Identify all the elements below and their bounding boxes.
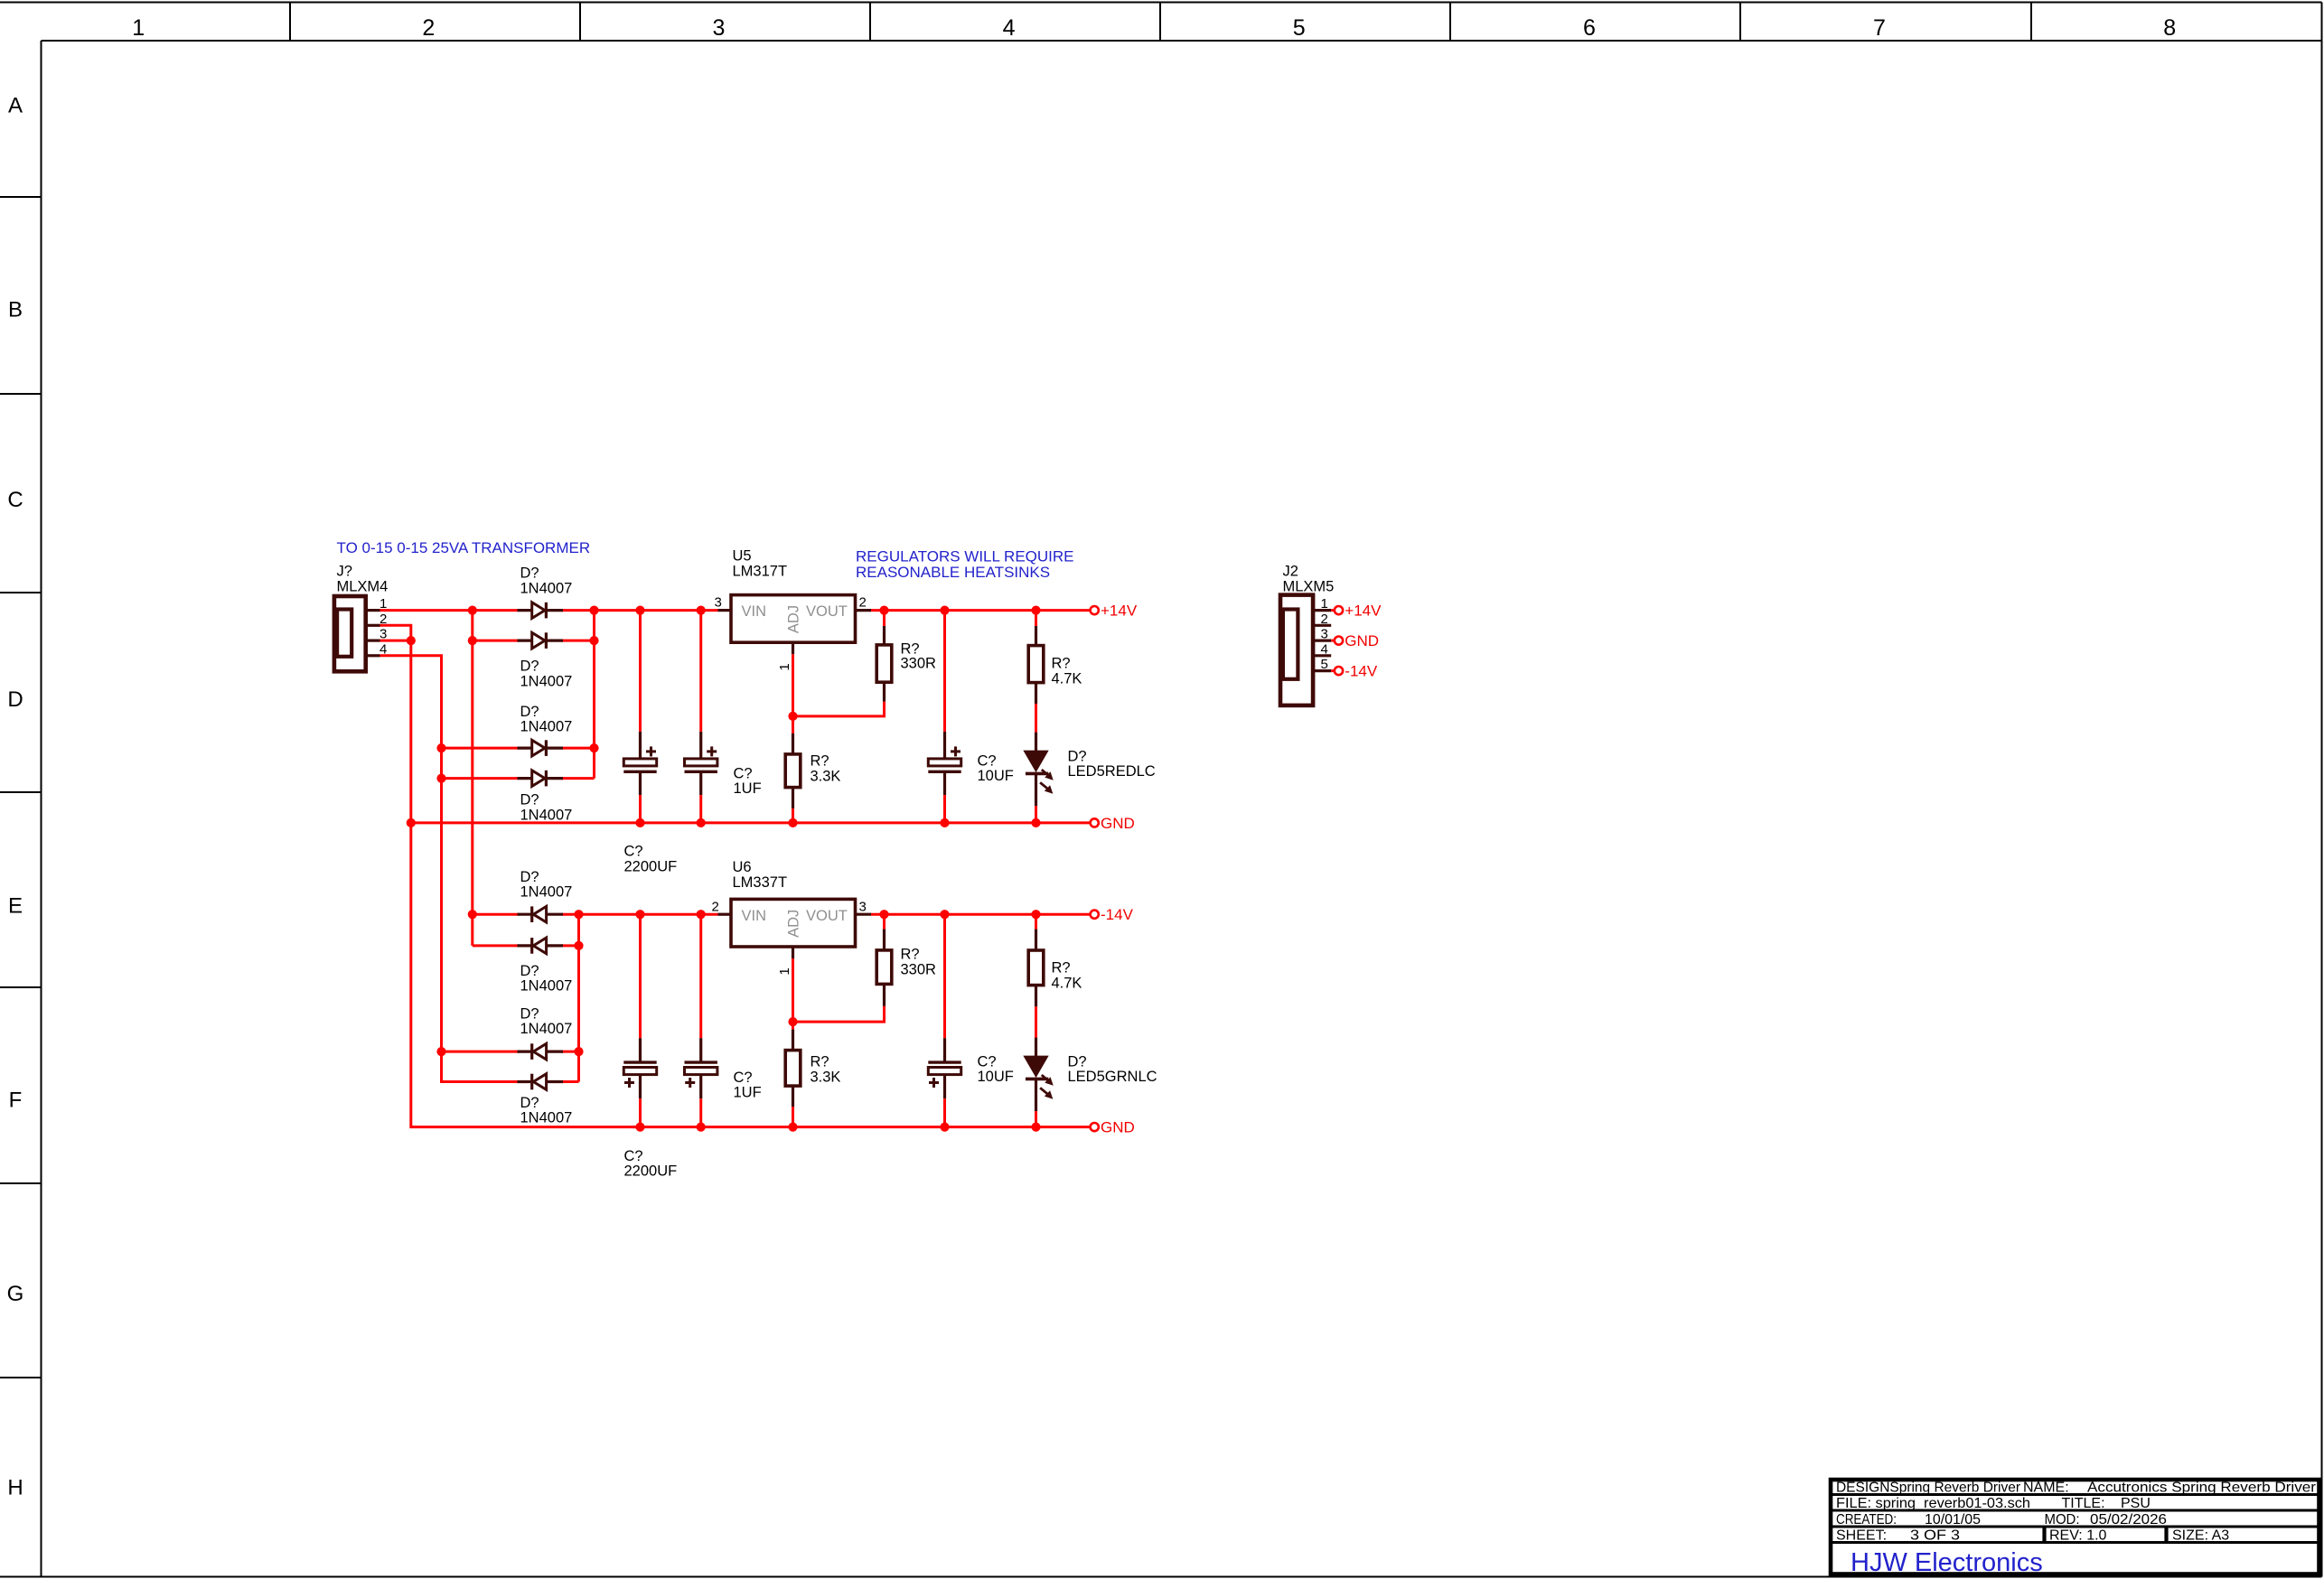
svg-text:FILE: spring_reverb01-03.sch: FILE: spring_reverb01-03.sch xyxy=(1836,1496,2030,1511)
resistor R6 4.7K (bottom) xyxy=(1035,930,1037,950)
svg-text:1N4007: 1N4007 xyxy=(520,1110,573,1126)
column divider 3/4 xyxy=(869,3,871,42)
diode D1 1N4007 (row 1) xyxy=(518,609,532,612)
svg-text:1: 1 xyxy=(132,15,145,41)
svg-text:MOD:: MOD: xyxy=(2045,1512,2080,1528)
terminal: bottom GND circle xyxy=(1091,1123,1099,1131)
svg-text:TITLE:: TITLE: xyxy=(2062,1496,2105,1511)
svg-text:3: 3 xyxy=(859,900,867,915)
wire: adj node across to R1 330R bottom xyxy=(793,702,885,716)
wire: pin1 vertical feed xyxy=(471,611,473,946)
svg-text:D?: D? xyxy=(520,1095,539,1111)
svg-text:1N4007: 1N4007 xyxy=(520,1021,573,1037)
wire: adj node down to R5 3.3K xyxy=(792,1022,794,1030)
connector J1 pin 3 stub xyxy=(366,639,380,641)
svg-text:10UF: 10UF xyxy=(978,768,1014,784)
junction: bottom GND rail at C5 xyxy=(697,1123,706,1132)
svg-text:HJW Electronics: HJW Electronics xyxy=(1851,1548,2043,1577)
wire: U5 ADJ pin down to adj node xyxy=(792,654,794,716)
U5 pin 3 stub (VIN) xyxy=(718,609,732,612)
U6 pin 2 stub (VIN) xyxy=(718,913,732,916)
sheet border: right outer line xyxy=(2321,3,2323,1577)
diode D3 1N4007 (row 3) xyxy=(518,746,532,749)
connector J2 MLXM5 body xyxy=(1280,595,1313,705)
U5 pin 1 stub (ADJ) xyxy=(792,642,794,654)
junction: top rail at C2 1UF xyxy=(697,606,706,615)
svg-text:D?: D? xyxy=(1068,749,1087,765)
diode D4 1N4007 (row 4) xyxy=(518,777,532,780)
svg-text:J2: J2 xyxy=(1283,564,1298,580)
resistor R3 4.7K (top) xyxy=(1035,626,1037,646)
svg-text:D?: D? xyxy=(520,704,539,720)
svg-text:1: 1 xyxy=(1321,596,1328,612)
svg-text:1: 1 xyxy=(777,663,792,670)
junction: plus node at D3 row xyxy=(589,743,598,752)
junction: centre tap at pins 2/3 xyxy=(407,636,416,645)
svg-text:330R: 330R xyxy=(901,656,937,672)
svg-text:3 OF 3: 3 OF 3 xyxy=(1910,1528,1960,1544)
svg-text:05/02/2026: 05/02/2026 xyxy=(2090,1512,2167,1528)
connector J1 pin 1 stub xyxy=(366,609,380,612)
svg-text:LM337T: LM337T xyxy=(733,874,788,891)
terminal: top GND circle xyxy=(1091,818,1099,827)
svg-text:REV: 1.0: REV: 1.0 xyxy=(2049,1528,2107,1544)
svg-text:TO 0-15 0-15 25VA TRANSFORMER: TO 0-15 0-15 25VA TRANSFORMER xyxy=(337,539,591,556)
junction: bottom GND rail at R5 xyxy=(788,1123,797,1132)
junction: minus rail at R6 4.7K xyxy=(1031,910,1040,919)
svg-text:-14V: -14V xyxy=(1345,663,1378,680)
svg-text:C?: C? xyxy=(624,844,643,860)
wire: minus rail down to R6 xyxy=(1035,914,1037,929)
wire: D2 row left segment xyxy=(473,640,520,642)
svg-text:C: C xyxy=(7,488,23,512)
junction: top rail at R1 330R xyxy=(879,606,888,615)
connector J2 pin 5 stub xyxy=(1313,669,1331,672)
svg-text:GND: GND xyxy=(1345,632,1379,649)
svg-text:A: A xyxy=(8,93,23,117)
resistor R1 330R (top) xyxy=(883,626,886,645)
svg-text:2200UF: 2200UF xyxy=(624,859,678,875)
svg-text:GND: GND xyxy=(1101,1119,1135,1136)
junction: minus node at D6 row xyxy=(574,941,583,950)
connector J2 pin 2 stub xyxy=(1313,624,1331,627)
wire: top rail down to R1 xyxy=(883,611,886,626)
svg-text:F: F xyxy=(9,1088,23,1112)
svg-text:H: H xyxy=(7,1476,23,1500)
connector J2 pin 3 stub xyxy=(1313,639,1331,641)
column divider 5/6 xyxy=(1449,3,1451,42)
wire: top GND rail xyxy=(411,821,1091,824)
svg-text:SIZE: A3: SIZE: A3 xyxy=(2172,1528,2229,1544)
wire: U6 ADJ pin down to adj node xyxy=(792,958,794,1022)
svg-text:10UF: 10UF xyxy=(978,1069,1014,1085)
svg-text:D?: D? xyxy=(1068,1054,1087,1070)
junction: centre tap meets top GND rail xyxy=(407,818,416,827)
junction: top GND rail at C1 xyxy=(635,818,644,827)
row divider D/E xyxy=(0,791,42,793)
junction: U5 adj node xyxy=(788,712,797,721)
wire: top rail down to R3 xyxy=(1035,611,1037,626)
svg-text:D?: D? xyxy=(520,659,539,675)
row divider F/G xyxy=(0,1182,42,1184)
title block row4 divider (SIZE) xyxy=(2164,1527,2168,1543)
wire: adj node across to R4 330R bottom xyxy=(793,1006,885,1022)
svg-text:330R: 330R xyxy=(901,962,937,978)
junction: plus node at D2 row xyxy=(589,636,598,645)
wire: J2 stub to GND terminal xyxy=(1331,640,1335,642)
resistor R2 3.3K (top) xyxy=(792,733,794,754)
wire: adj node down to R2 3.3K xyxy=(792,716,794,733)
wire: D4 row right segment xyxy=(561,777,595,780)
svg-text:3: 3 xyxy=(1321,627,1328,642)
svg-text:1N4007: 1N4007 xyxy=(520,978,573,995)
capacitor C4 2200UF (bottom) xyxy=(639,914,642,1038)
capacitor C6 10UF (bottom) xyxy=(943,914,946,1038)
wire: U6 VOUT to -14V terminal xyxy=(871,913,1091,916)
wire: R5 bottom to bottom GND rail xyxy=(792,1107,794,1127)
wire: D5 row left segment xyxy=(473,913,520,916)
terminal: J2 GND circle xyxy=(1335,637,1343,645)
wire: plus-node vertical xyxy=(593,611,595,779)
svg-text:2: 2 xyxy=(859,595,867,611)
diode D6 1N4007 (row 6) xyxy=(518,944,532,947)
svg-text:R?: R? xyxy=(811,1054,829,1070)
svg-text:B: B xyxy=(8,298,23,322)
diode D8 1N4007 (row 8) xyxy=(518,1080,532,1083)
svg-text:LM317T: LM317T xyxy=(733,564,788,580)
svg-text:PSU: PSU xyxy=(2121,1496,2151,1511)
LED D9 LED5REDLC xyxy=(1035,733,1037,752)
U6 pin 3 stub (VOUT) xyxy=(856,913,872,916)
title block row4 divider (REV) xyxy=(2042,1527,2046,1543)
junction: top GND rail at LED D9 xyxy=(1031,818,1040,827)
title block row separator 1 xyxy=(1831,1493,2319,1496)
svg-text:D: D xyxy=(7,687,23,712)
junction: U6 adj node xyxy=(788,1017,797,1026)
junction: pin4 vert at D4 row xyxy=(436,774,445,783)
op-amp U5 LM317T body xyxy=(731,595,856,643)
svg-text:1N4007: 1N4007 xyxy=(520,719,573,735)
capacitor C2 1UF (top) xyxy=(699,611,702,732)
diode D5 1N4007 (row 5) xyxy=(518,913,532,916)
LED D10 LED5GRNLC xyxy=(1035,1038,1037,1057)
svg-text:C?: C? xyxy=(624,1148,643,1164)
svg-text:R?: R? xyxy=(1052,960,1071,976)
svg-text:4.7K: 4.7K xyxy=(1052,671,1082,687)
wire: R3 to LED D9 xyxy=(1035,704,1037,733)
junction: minus node at D7 row xyxy=(574,1047,583,1056)
junction: plus node at top rail xyxy=(589,606,598,615)
column divider 4/5 xyxy=(1159,3,1161,42)
svg-text:VOUT: VOUT xyxy=(806,908,848,924)
wire: LED D9 cathode to top GND rail xyxy=(1035,806,1037,823)
svg-text:D?: D? xyxy=(520,869,539,885)
svg-text:LED5GRNLC: LED5GRNLC xyxy=(1068,1069,1157,1085)
svg-text:3.3K: 3.3K xyxy=(811,769,841,785)
title block outer box xyxy=(1831,1480,2319,1574)
svg-text:R?: R? xyxy=(901,947,920,963)
svg-text:ADJ: ADJ xyxy=(786,605,802,633)
svg-text:D?: D? xyxy=(520,565,539,582)
wire: D7 row left segment xyxy=(442,1051,520,1053)
wire: D3 row right segment xyxy=(561,747,595,750)
svg-text:D?: D? xyxy=(520,1006,539,1023)
wire: pin1 to D1 anode (+AC top rail left) xyxy=(380,609,520,612)
wire: D6 row right segment xyxy=(561,944,579,947)
U5 pin 2 stub (VOUT) xyxy=(856,609,872,612)
junction: top GND rail at C3 xyxy=(940,818,949,827)
connector J1 pin 2 stub xyxy=(366,624,380,627)
svg-text:D?: D? xyxy=(520,963,539,979)
svg-text:2: 2 xyxy=(712,900,719,915)
diode D2 1N4007 (row 2) xyxy=(518,639,532,641)
wire: D8 row right segment xyxy=(561,1080,579,1083)
capacitor C5 1UF (bottom) xyxy=(699,914,702,1038)
wire: U5 VOUT to +14V terminal xyxy=(871,609,1091,612)
row divider C/D xyxy=(0,592,42,593)
wire: D2 row right segment xyxy=(561,640,595,642)
svg-text:DESIGNSpring Reverb Driver: DESIGNSpring Reverb Driver xyxy=(1836,1481,2021,1496)
wire: pin4 vertical feed xyxy=(380,656,520,1082)
title block row separator 3 xyxy=(1831,1526,2319,1528)
wire: D1 cathode to U5 VIN xyxy=(561,609,718,612)
svg-text:G: G xyxy=(7,1282,24,1306)
svg-text:5: 5 xyxy=(1293,15,1306,41)
wire: R6 to LED D10 xyxy=(1035,1006,1037,1038)
svg-text:4.7K: 4.7K xyxy=(1052,976,1082,992)
terminal: J2 -14V circle xyxy=(1335,667,1343,675)
svg-text:MLXM5: MLXM5 xyxy=(1283,579,1335,595)
title block row separator 2 xyxy=(1831,1509,2319,1512)
wire: bottom GND rail xyxy=(633,1126,1091,1128)
svg-text:1UF: 1UF xyxy=(734,1085,762,1101)
junction: minus rail at C5 1UF xyxy=(697,910,706,919)
wire: J2 stub to -14V terminal xyxy=(1331,669,1335,672)
svg-text:-14V: -14V xyxy=(1101,906,1134,923)
wire: minus rail down to R4 xyxy=(883,914,886,929)
svg-text:D?: D? xyxy=(520,792,539,808)
svg-text:R?: R? xyxy=(1052,656,1071,672)
terminal: J2 +14V circle xyxy=(1335,606,1343,614)
junction: bottom GND rail at LED D10 xyxy=(1031,1123,1040,1132)
junction: top rail at R3 4.7K xyxy=(1031,606,1040,615)
column divider 1/2 xyxy=(289,3,291,42)
connector J1 pin 4 stub xyxy=(366,654,380,657)
svg-text:E: E xyxy=(8,894,23,919)
junction: top GND rail at R2 xyxy=(788,818,797,827)
svg-text:J?: J? xyxy=(337,564,352,580)
row divider A/B xyxy=(0,196,42,198)
junction: top rail at C1 2200UF xyxy=(635,606,644,615)
junction: top rail at C3 10UF xyxy=(940,606,949,615)
wire: LED D10 cathode to bottom GND rail xyxy=(1035,1111,1037,1127)
svg-text:VIN: VIN xyxy=(742,908,767,924)
sheet border: content frame top line xyxy=(42,40,2322,42)
svg-text:C?: C? xyxy=(734,766,753,782)
svg-text:6: 6 xyxy=(1583,15,1596,41)
column divider 6/7 xyxy=(1739,3,1741,42)
junction: bottom GND rail at C4 xyxy=(635,1123,644,1132)
U6 pin 1 stub (ADJ) xyxy=(792,947,794,958)
junction: minus rail at C6 10UF xyxy=(940,910,949,919)
svg-text:GND: GND xyxy=(1101,815,1135,832)
wire: D7 row right segment xyxy=(561,1051,579,1053)
svg-text:C?: C? xyxy=(978,753,997,770)
svg-text:VIN: VIN xyxy=(742,603,767,620)
connector J2 pin 4 stub xyxy=(1313,654,1331,657)
diode D7 1N4007 (row 7) xyxy=(518,1050,532,1052)
svg-text:2: 2 xyxy=(422,15,435,41)
title block row separator 4 xyxy=(1831,1541,2319,1544)
resistor R5 3.3K (bottom) xyxy=(792,1030,794,1051)
terminal: -14V output circle xyxy=(1091,911,1099,919)
junction: minus rail at C4 2200UF xyxy=(635,910,644,919)
svg-text:1N4007: 1N4007 xyxy=(520,808,573,824)
svg-text:5: 5 xyxy=(1321,657,1328,672)
svg-text:10/01/05: 10/01/05 xyxy=(1925,1512,1981,1528)
svg-text:NAME:: NAME: xyxy=(2023,1481,2069,1496)
op-amp U6 LM337T body xyxy=(731,899,856,947)
svg-text:CREATED:: CREATED: xyxy=(1836,1512,1897,1528)
junction: pin4 vert at D7 row xyxy=(436,1047,445,1056)
connector J1 MLXM4 body xyxy=(334,596,366,671)
svg-text:SHEET:: SHEET: xyxy=(1836,1528,1887,1544)
column divider 2/3 xyxy=(579,3,581,42)
junction: pin4 vert at D3 row xyxy=(436,743,445,752)
svg-text:R?: R? xyxy=(811,753,829,770)
svg-text:7: 7 xyxy=(1873,15,1886,41)
svg-text:3: 3 xyxy=(712,15,725,41)
svg-text:+14V: +14V xyxy=(1345,603,1382,620)
wire: pin2 jog down to centre tap xyxy=(380,625,411,640)
svg-text:LED5REDLC: LED5REDLC xyxy=(1068,763,1156,780)
junction: minus rail at R4 330R xyxy=(879,910,888,919)
row divider E/F xyxy=(0,986,42,988)
connector J2 pin 1 stub xyxy=(1313,609,1331,612)
wire: D3 row left segment xyxy=(442,747,520,750)
wire: pin3 to centre-tap node xyxy=(380,640,411,642)
svg-text:4: 4 xyxy=(1321,641,1328,657)
svg-text:Accutronics Spring Reverb Driv: Accutronics Spring Reverb Driver xyxy=(2087,1481,2317,1496)
resistor R4 330R (bottom) xyxy=(883,930,886,950)
wire: R2 bottom to top GND rail xyxy=(792,808,794,823)
junction: minus node at -rail xyxy=(574,910,583,919)
svg-text:1N4007: 1N4007 xyxy=(520,581,573,597)
svg-text:4: 4 xyxy=(1003,15,1016,41)
wire: centre-tap vertical down to top GND rail xyxy=(409,640,412,823)
svg-text:2200UF: 2200UF xyxy=(624,1163,678,1180)
svg-text:REGULATORS WILL REQUIRE: REGULATORS WILL REQUIRE xyxy=(856,548,1074,565)
svg-text:ADJ: ADJ xyxy=(786,910,802,938)
svg-text:MLXM4: MLXM4 xyxy=(337,579,389,595)
junction: pin1 vert at D2 row xyxy=(468,636,477,645)
junction: pin1 rail tap xyxy=(468,606,477,615)
junction: top GND rail at C2 xyxy=(697,818,706,827)
junction: pin1 vert at D5 row xyxy=(468,910,477,919)
wire: J2 stub to +14V terminal xyxy=(1331,609,1335,612)
svg-text:VOUT: VOUT xyxy=(806,603,848,620)
wire: D5 row right segment xyxy=(561,913,579,916)
wire: D6 row left segment xyxy=(473,944,520,947)
junction: bottom GND rail at C6 xyxy=(940,1123,949,1132)
sheet border: top outer line xyxy=(0,2,2322,4)
svg-text:C?: C? xyxy=(734,1070,753,1086)
wire: minus-node vertical xyxy=(577,914,580,1081)
terminal: +14V output circle xyxy=(1091,606,1099,614)
sheet border: content frame left line xyxy=(41,41,42,1577)
column divider 7/8 xyxy=(2030,3,2032,42)
svg-text:REASONABLE HEATSINKS: REASONABLE HEATSINKS xyxy=(856,564,1050,581)
sheet border: bottom outer line xyxy=(0,1576,2322,1578)
row divider G/H xyxy=(0,1377,42,1378)
wire: minus rail to U6 VIN xyxy=(579,913,718,916)
svg-text:+14V: +14V xyxy=(1101,603,1138,620)
svg-text:C?: C? xyxy=(978,1054,997,1070)
svg-text:2: 2 xyxy=(1321,612,1328,627)
svg-text:U5: U5 xyxy=(733,548,752,565)
svg-text:1UF: 1UF xyxy=(734,780,762,797)
svg-text:1N4007: 1N4007 xyxy=(520,884,573,901)
capacitor C1 2200UF (top) xyxy=(639,611,642,732)
svg-text:3: 3 xyxy=(715,595,722,611)
wire: D4 row left segment xyxy=(442,777,520,780)
svg-text:8: 8 xyxy=(2163,15,2176,41)
capacitor C3 10UF (top) xyxy=(943,611,946,732)
svg-text:1N4007: 1N4007 xyxy=(520,674,573,690)
svg-text:U6: U6 xyxy=(733,859,752,875)
svg-text:1: 1 xyxy=(777,967,792,975)
row divider B/C xyxy=(0,393,42,395)
wire: centre-tap vertical down to bottom GND rail xyxy=(411,823,641,1127)
svg-text:3.3K: 3.3K xyxy=(811,1070,841,1086)
